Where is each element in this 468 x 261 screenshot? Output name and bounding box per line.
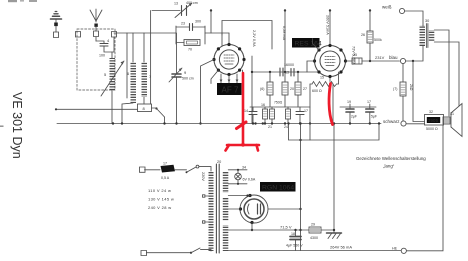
capacitor 27 on coupling wire — [291, 69, 294, 77]
transformer label 20 — [217, 160, 221, 164]
svg-text:400 cm: 400 cm — [186, 1, 198, 5]
wire blau to transformer bottom — [406, 46, 423, 62]
svg-text:17: 17 — [163, 162, 167, 166]
svg-text:4300: 4300 — [310, 236, 318, 240]
label 22 — [367, 100, 377, 119]
loudspeaker cone — [451, 104, 462, 137]
label 231V blau — [375, 55, 398, 60]
mains connector top — [140, 167, 146, 172]
ground symbol — [327, 233, 342, 239]
label 17 0,5A — [161, 162, 170, 181]
tuning capacitor 9 variable — [169, 33, 182, 124]
svg-text:5000 Ω: 5000 Ω — [426, 127, 438, 131]
svg-text:600 Ω: 600 Ω — [312, 89, 322, 93]
transformer secondary windings — [223, 171, 229, 251]
label 260V 51mA — [325, 15, 329, 35]
screen resistor 26 — [367, 9, 373, 61]
label HE — [392, 247, 398, 251]
svg-text:100: 100 — [99, 54, 105, 58]
capacitor 19 — [346, 104, 354, 124]
screen arch wire — [222, 21, 272, 50]
capacitor 17 — [296, 107, 304, 124]
voice coil 31 — [443, 117, 450, 124]
svg-text:32: 32 — [429, 110, 433, 114]
label 21 — [268, 125, 272, 129]
resistor row A r20 — [282, 72, 288, 107]
svg-text:110 V 24 w: 110 V 24 w — [148, 188, 171, 193]
rectifier anode output — [268, 208, 302, 210]
output transformer 30 — [420, 24, 435, 48]
label 30 — [425, 19, 429, 23]
voltage table — [148, 188, 174, 210]
filter capacitor 18 — [290, 229, 301, 251]
wire schwarz to speaker — [406, 123, 424, 125]
label 16 — [261, 103, 265, 107]
socket on box left — [76, 32, 81, 38]
svg-text:23: 23 — [181, 22, 185, 26]
wire bottom right up to speaker — [406, 125, 443, 251]
label L6 — [127, 71, 130, 76]
coupling capacitor 16000 — [280, 68, 283, 76]
antenna coil L5 variable — [110, 52, 116, 124]
label C9 — [182, 70, 194, 81]
connector bottom right — [401, 248, 406, 253]
top feedback wire H1 — [152, 10, 180, 12]
svg-text:Gezeichnete Wellenschalterstel: Gezeichnete Wellenschalterstellung — [356, 156, 426, 161]
svg-text:0,5 A: 0,5 A — [161, 176, 170, 180]
label 28 — [393, 84, 413, 91]
power transformer primary — [209, 171, 214, 251]
wire to output transformer top — [405, 11, 423, 26]
red annotation main cross — [226, 73, 260, 151]
svg-text:2μF: 2μF — [351, 115, 357, 119]
svg-text:HE: HE — [392, 247, 398, 251]
svg-text:2kΩ: 2kΩ — [409, 84, 413, 91]
svg-text:(6): (6) — [260, 87, 264, 91]
label 72V 52mA — [352, 46, 356, 65]
oscillator riser to top wire — [150, 11, 152, 105]
rectifier heater wires — [228, 194, 250, 209]
field coil black label — [427, 117, 440, 123]
svg-text:16000: 16000 — [284, 63, 294, 67]
svg-text:„lang“: „lang“ — [383, 164, 395, 169]
cathode resistor zigzag 600ohm — [310, 82, 339, 87]
dial lamp 34 — [228, 169, 247, 185]
svg-text:30: 30 — [425, 19, 429, 23]
svg-text:264V 56 mA: 264V 56 mA — [330, 245, 352, 250]
svg-text:34: 34 — [242, 166, 246, 170]
label L5 — [104, 72, 107, 77]
resistor 24 — [286, 107, 291, 124]
svg-text:16: 16 — [261, 103, 265, 107]
label 220V — [201, 172, 205, 181]
label L7 — [149, 74, 152, 79]
svg-text:17: 17 — [367, 100, 371, 104]
labels 23 300 70 — [181, 20, 201, 52]
svg-text:240 V 28 w: 240 V 28 w — [148, 205, 172, 210]
wire band switch riser — [126, 33, 128, 98]
resistor 16 — [263, 107, 268, 124]
rectifier cathode down — [251, 223, 253, 232]
svg-text:20: 20 — [290, 87, 294, 91]
wire 413 down to speaker row — [413, 61, 425, 122]
rectifier tube RGN1064 — [239, 194, 268, 224]
label 25 — [353, 53, 357, 57]
label 29 4300 — [310, 223, 318, 241]
shield dashed box — [77, 29, 115, 90]
wave switch contact — [152, 107, 165, 123]
label 18 4uF — [286, 232, 303, 248]
tube label box AF 7 — [217, 83, 242, 95]
svg-text:750Ω: 750Ω — [274, 101, 283, 105]
label 14 — [244, 109, 248, 113]
transformer core — [216, 164, 219, 253]
capacitor 22 — [366, 104, 374, 124]
primary taps — [203, 195, 209, 223]
svg-text:17: 17 — [304, 109, 308, 113]
svg-text:(7): (7) — [393, 87, 397, 91]
label 24 — [284, 125, 288, 129]
svg-text:29: 29 — [311, 223, 315, 227]
svg-text:VE 301 Dyn: VE 301 Dyn — [10, 92, 24, 159]
label 600 — [312, 76, 324, 94]
resistor row A r27 — [295, 72, 301, 107]
label C4 — [99, 38, 110, 58]
step detour wire — [287, 122, 380, 141]
text wave switch note — [356, 156, 426, 169]
blocking unit 8 — [138, 104, 152, 112]
earth electrode symbol — [51, 12, 62, 27]
svg-text:weiß: weiß — [382, 5, 392, 10]
svg-text:27: 27 — [303, 87, 307, 91]
bottom supply wire — [228, 250, 400, 252]
label 0,28 mA — [282, 26, 286, 41]
svg-text:300: 300 — [195, 20, 201, 24]
AF7 grid return lead — [199, 60, 214, 125]
svg-text:AF 7: AF 7 — [222, 85, 239, 94]
ground chassis vertical — [333, 122, 335, 233]
capacitor 14 — [249, 107, 257, 124]
heater wire vertical — [251, 56, 253, 124]
svg-text:blau: blau — [389, 55, 398, 60]
label 15 — [260, 87, 264, 91]
antenna symbol — [90, 9, 102, 31]
wire earth lead down to ground rail — [55, 26, 57, 32]
connector weiss — [399, 8, 404, 13]
RES164 bottom pin lead — [329, 77, 331, 82]
title text VE 301 Dyn — [10, 92, 24, 159]
coupling wire H4 y72 — [251, 71, 318, 73]
B+ vertical — [299, 122, 301, 250]
wave range wire left — [55, 108, 138, 110]
svg-text:RES 164: RES 164 — [295, 40, 322, 47]
smoothing resistor 29 — [301, 227, 335, 233]
svg-text:RGN 1064: RGN 1064 — [262, 185, 294, 192]
antenna socket — [94, 31, 99, 37]
svg-text:130 V 145 w: 130 V 145 w — [148, 197, 174, 202]
label 19 — [347, 100, 357, 119]
RES164 screen diagonal — [313, 39, 320, 51]
tube AF7 leads from grid — [222, 33, 229, 46]
plate coupling box 25 — [346, 58, 371, 64]
label schwarz — [383, 119, 400, 124]
svg-text:13: 13 — [174, 2, 178, 6]
label 71,5V — [280, 225, 292, 230]
label 20 — [290, 87, 294, 91]
svg-text:220V: 220V — [201, 172, 205, 181]
svg-text:19: 19 — [347, 100, 351, 104]
earth socket — [54, 32, 59, 38]
svg-text:0,28 mA: 0,28 mA — [282, 26, 286, 41]
svg-text:18: 18 — [291, 232, 295, 236]
rectifier label box RGN 1064 — [260, 182, 296, 192]
grid capacitor 23 and leak resistor 70 parallel — [176, 24, 205, 46]
screen feed vertical — [284, 9, 286, 72]
grid wire H2 — [114, 32, 229, 34]
plate wire H3 to blau — [369, 60, 400, 62]
svg-text:24: 24 — [284, 125, 288, 129]
mains switch top — [186, 165, 212, 173]
secondary wires to speaker — [434, 30, 459, 116]
arrow across L5 — [101, 61, 124, 96]
fuse 17 — [145, 165, 187, 173]
label 27 — [303, 87, 307, 91]
component top rail y107 — [250, 106, 376, 108]
coupling coil L7 — [142, 33, 148, 104]
chassis rail y123.5 — [57, 122, 381, 124]
labels 32 5000 — [426, 110, 438, 131]
svg-text:500 cm: 500 cm — [182, 77, 194, 81]
scan artifact marks top left — [0, 0, 37, 127]
RES164 grid side wire — [307, 61, 315, 72]
label 34 — [242, 166, 256, 182]
svg-text:231V: 231V — [375, 55, 385, 60]
label 16000 — [284, 63, 294, 75]
svg-text:2,2V 0,9A: 2,2V 0,9A — [252, 30, 256, 47]
label 264V — [330, 245, 352, 250]
label C13 — [174, 1, 198, 6]
power tube RES164 — [313, 44, 347, 78]
svg-text:13: 13 — [285, 71, 289, 75]
node H1-H2 drop — [210, 9, 212, 33]
connector blau — [400, 58, 405, 63]
svg-text:25: 25 — [353, 53, 357, 57]
svg-text:schwarz: schwarz — [383, 119, 400, 124]
mains connector bottom — [141, 251, 147, 256]
resistor 21 — [270, 107, 275, 124]
op tube AF7 — [212, 43, 245, 76]
label 26 — [361, 33, 382, 42]
svg-text:20: 20 — [217, 160, 221, 164]
label 31 — [450, 112, 454, 116]
resistor chain row A r15 — [267, 72, 273, 107]
svg-text:15: 15 — [320, 76, 324, 80]
svg-text:21: 21 — [268, 125, 272, 129]
svg-text:4μF 550 V: 4μF 550 V — [286, 244, 303, 248]
svg-text:6V 0,6A: 6V 0,6A — [243, 177, 256, 181]
label weiss — [382, 5, 392, 10]
svg-text:26: 26 — [361, 33, 365, 37]
svg-text:500k: 500k — [374, 38, 382, 42]
tube RES164 plate riser — [329, 9, 331, 45]
speaker field coil box — [425, 115, 444, 126]
svg-text:260V 51mA: 260V 51mA — [325, 15, 329, 35]
AF7 cathode wire down — [242, 70, 244, 124]
tube label box RES 164 — [292, 38, 322, 48]
71.5V row — [228, 229, 300, 231]
label 17 — [304, 109, 308, 113]
svg-text:70: 70 — [188, 48, 192, 52]
connector schwarz — [401, 121, 406, 126]
lamp riser to rail — [254, 122, 264, 124]
svg-text:14: 14 — [244, 109, 248, 113]
cathode drop wires — [310, 72, 339, 124]
grid coil L6 — [122, 33, 136, 124]
label 8 — [143, 106, 146, 111]
bottom mains wire and switch — [147, 248, 212, 254]
label plate AF7 heater text — [252, 30, 256, 47]
capacitor C4 antenna coupling — [96, 37, 114, 52]
field resistor 28 — [400, 64, 406, 121]
socket on box right — [112, 32, 117, 38]
label 750 — [274, 101, 283, 105]
svg-text:3905: 3905 — [428, 118, 439, 123]
svg-text:71,5 V: 71,5 V — [280, 225, 292, 230]
red annotation cathode line — [329, 84, 332, 125]
svg-text:5μF: 5μF — [371, 115, 377, 119]
feedback capacitor 13 variable — [175, 3, 192, 18]
AF7 cathode leads down to label — [211, 70, 238, 83]
